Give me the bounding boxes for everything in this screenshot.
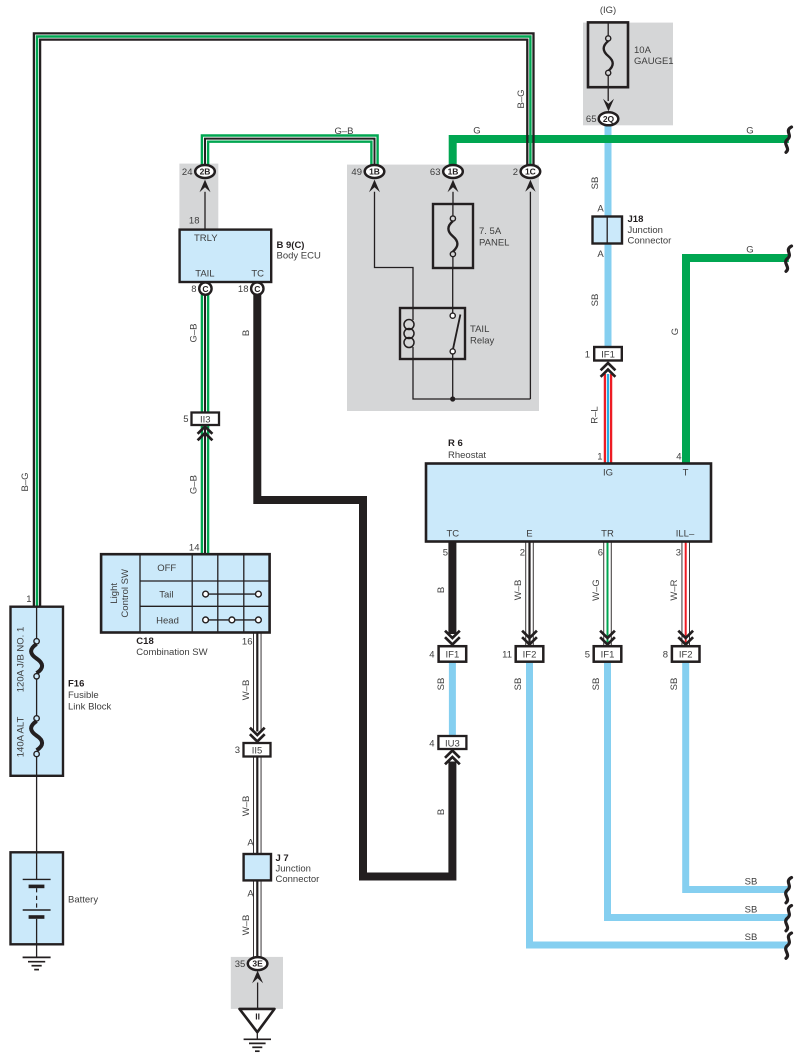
svg-text:F16: F16 — [68, 679, 84, 690]
svg-text:W–G: W–G — [591, 579, 602, 601]
svg-text:2: 2 — [513, 167, 518, 178]
svg-text:7. 5A: 7. 5A — [479, 226, 502, 237]
wire SB from IF2-11 to right edge — [530, 661, 789, 945]
svg-text:3: 3 — [676, 548, 681, 559]
wire B from body ECU TC down around to IU3 — [257, 295, 452, 877]
svg-text:Light: Light — [109, 583, 120, 604]
gauge fuse box 10A — [588, 22, 628, 87]
svg-text:IF1: IF1 — [446, 650, 460, 661]
svg-text:18: 18 — [238, 284, 249, 295]
fusible link 120A J/B NO.1 — [31, 607, 42, 716]
svg-text:3: 3 — [235, 745, 240, 756]
svg-text:SB: SB — [590, 294, 601, 307]
svg-text:SB: SB — [745, 877, 758, 888]
svg-text:J 7: J 7 — [276, 853, 289, 864]
oval connector 2B — [195, 165, 215, 178]
break squiggle on SB wire y917 — [786, 906, 792, 931]
svg-text:120A J/B NO. 1: 120A J/B NO. 1 — [16, 627, 27, 692]
svg-text:5: 5 — [443, 548, 448, 559]
ground symbol bottom — [244, 1039, 271, 1051]
break squiggle on SB wire y889 — [786, 878, 792, 903]
svg-text:1: 1 — [597, 452, 602, 463]
svg-text:Junction: Junction — [628, 225, 663, 236]
svg-text:Body ECU: Body ECU — [277, 251, 321, 262]
svg-text:A: A — [597, 204, 604, 215]
connector IF2 pin8 — [672, 646, 700, 662]
thin wire F16 to battery — [36, 775, 38, 853]
wire W-B from J7 to 3E — [254, 880, 261, 958]
chevron up into II3 — [198, 427, 213, 441]
svg-text:II5: II5 — [252, 745, 263, 756]
oval connector 2Q — [599, 112, 619, 125]
svg-text:SB: SB — [590, 177, 601, 190]
svg-text:IG: IG — [603, 468, 613, 479]
svg-text:SB: SB — [513, 678, 524, 691]
tail relay box — [400, 308, 465, 359]
pin circle C 8 — [199, 282, 211, 294]
svg-text:R–L: R–L — [590, 406, 601, 423]
svg-text:18: 18 — [189, 216, 200, 227]
thin wire 1B49 to relay coil — [375, 192, 414, 320]
svg-text:4: 4 — [429, 650, 434, 661]
oval connector 3E — [248, 957, 268, 970]
gray panel: IG gauge fuse block — [583, 23, 673, 126]
svg-text:4: 4 — [676, 452, 681, 463]
svg-text:5: 5 — [183, 414, 188, 425]
rheostat R6 — [426, 464, 711, 542]
svg-text:SB: SB — [669, 678, 680, 691]
svg-text:GAUGE1: GAUGE1 — [634, 56, 674, 67]
connector IF1 pin4 — [439, 646, 467, 662]
connector IF1 pin5 — [594, 646, 622, 662]
svg-text:Connector: Connector — [276, 874, 320, 885]
connector II3 — [192, 413, 220, 426]
svg-text:G–B: G–B — [334, 126, 353, 137]
svg-text:Control SW: Control SW — [120, 569, 131, 618]
thin wire 1C down right side — [529, 192, 531, 399]
chevron down into IF2 pin8 — [678, 631, 693, 645]
wire W-B from II5 to J7 — [254, 757, 261, 855]
arrow up into 3E — [252, 971, 263, 984]
svg-text:TRLY: TRLY — [194, 233, 218, 244]
svg-text:A: A — [247, 889, 254, 900]
svg-text:W–B: W–B — [241, 915, 252, 936]
gray panel: ground point 3E — [231, 957, 283, 1009]
svg-text:Link Block: Link Block — [68, 702, 112, 713]
svg-text:B–G: B–G — [20, 472, 31, 491]
svg-text:T: T — [683, 468, 689, 479]
svg-text:TAIL: TAIL — [470, 324, 489, 335]
svg-text:PANEL: PANEL — [479, 238, 509, 249]
svg-text:35: 35 — [235, 959, 246, 970]
svg-text:24: 24 — [182, 167, 193, 178]
svg-text:16: 16 — [242, 637, 253, 648]
svg-text:2Q: 2Q — [603, 114, 615, 124]
chevron down into II5 — [250, 728, 265, 742]
chevron down into IF1 pin5 — [600, 631, 615, 645]
thin wire gauge fuse to 2Q arrow — [607, 87, 609, 101]
wire G second to rheostat T — [686, 258, 789, 465]
thin wire panel fuse to relay switch — [452, 267, 454, 314]
svg-text:Connector: Connector — [628, 236, 672, 247]
svg-text:W–B: W–B — [513, 580, 524, 601]
svg-text:6: 6 — [598, 548, 603, 559]
gray panel: body ECU pin 2B — [179, 164, 218, 230]
junction dot on bottom rail — [450, 396, 455, 401]
arrow up into 1B49 — [369, 180, 380, 193]
thin wire relay switch to bottom rail — [452, 354, 454, 399]
svg-text:(IG): (IG) — [600, 5, 616, 16]
svg-text:IU3: IU3 — [445, 739, 460, 750]
svg-text:Junction: Junction — [276, 864, 311, 875]
svg-text:IF2: IF2 — [679, 650, 693, 661]
svg-text:C18: C18 — [136, 636, 153, 647]
wire G-B from 2B over to 1B49 — [202, 136, 378, 166]
svg-text:Tail: Tail — [159, 589, 173, 600]
svg-text:G: G — [670, 328, 681, 335]
wire G main horizontal to 1B63 — [453, 139, 789, 165]
wire R-L from IF1 down to rheostat IG — [605, 374, 611, 465]
thin wire 2B arrow to body ECU — [204, 192, 206, 230]
svg-text:TC: TC — [446, 528, 459, 539]
break squiggle on G wire top — [786, 127, 792, 152]
wire SB from IF1 to IU3 — [449, 661, 456, 737]
svg-text:SB: SB — [436, 678, 447, 691]
thin wire 1B63 to panel fuse — [452, 192, 454, 205]
switch contacts head row — [203, 617, 262, 623]
connector IU3 — [438, 736, 466, 749]
svg-text:10A: 10A — [634, 45, 652, 56]
chevron up into IF1 pin1 — [601, 363, 616, 377]
svg-text:W–B: W–B — [241, 680, 252, 701]
svg-text:IF1: IF1 — [601, 350, 615, 361]
pin circle C 18 — [251, 282, 263, 294]
svg-text:63: 63 — [430, 167, 441, 178]
svg-text:1B: 1B — [369, 167, 380, 177]
svg-text:G–B: G–B — [189, 475, 200, 494]
svg-text:II: II — [255, 1012, 260, 1022]
fusible link 140A ALT — [31, 716, 42, 775]
svg-text:B 9(C): B 9(C) — [277, 240, 305, 251]
svg-text:Head: Head — [156, 615, 179, 626]
wire SB from IF1-5 to right edge — [608, 661, 789, 918]
relay coil — [404, 320, 414, 348]
oval connector 1B 63 — [443, 165, 463, 178]
svg-text:5: 5 — [585, 650, 590, 661]
svg-text:2: 2 — [520, 548, 525, 559]
wire W-B from C18 pin16 to II5 — [254, 633, 261, 732]
chevron down into IF1 pin4 — [445, 631, 460, 645]
ground triangle II — [240, 1009, 275, 1032]
thin wire relay coil bottom to bottom rail — [413, 347, 530, 399]
svg-text:Battery: Battery — [68, 895, 98, 906]
relay switch — [450, 313, 460, 354]
chevron down into IF2 pin11 — [522, 631, 537, 645]
svg-text:1: 1 — [585, 350, 590, 361]
svg-text:SB: SB — [745, 905, 758, 916]
ground below battery — [23, 957, 51, 969]
arrow down into 2Q — [603, 99, 614, 112]
svg-text:R 6: R 6 — [448, 438, 463, 449]
break squiggle on SB wire y945 — [786, 933, 792, 958]
connector IF1 pin1 — [594, 347, 622, 361]
svg-text:E: E — [526, 528, 532, 539]
svg-text:TAIL: TAIL — [195, 269, 214, 280]
svg-text:G: G — [746, 245, 753, 256]
battery — [11, 852, 64, 944]
chevron up into IU3 — [445, 751, 460, 765]
connector IF2 pin11 — [516, 646, 544, 662]
svg-text:A: A — [247, 838, 254, 849]
svg-text:J18: J18 — [628, 214, 644, 225]
wire B from rheostat TC down to IF1 — [448, 542, 456, 635]
wire W-B from rheostat E down to IF2 — [526, 542, 534, 646]
svg-text:TC: TC — [251, 269, 264, 280]
wire G-B from pin 8C down to II3 — [202, 295, 208, 413]
svg-text:W–R: W–R — [669, 579, 680, 600]
junction connector J18 — [593, 217, 623, 244]
svg-text:Rheostat: Rheostat — [448, 450, 486, 461]
junction connector J7 — [244, 854, 271, 880]
svg-text:A: A — [597, 249, 604, 260]
oval connector 1B 49 — [365, 165, 385, 178]
svg-text:11: 11 — [502, 650, 512, 661]
svg-text:SB: SB — [591, 678, 602, 691]
panel fuse box 7.5A — [433, 204, 473, 268]
svg-text:8: 8 — [191, 284, 196, 295]
svg-text:1: 1 — [26, 594, 31, 605]
svg-text:2B: 2B — [200, 167, 211, 177]
combination switch C18 — [101, 554, 270, 632]
oval connector 1C — [521, 165, 541, 178]
svg-text:Combination SW: Combination SW — [136, 647, 207, 658]
svg-text:IF1: IF1 — [601, 650, 615, 661]
svg-text:ILL–: ILL– — [676, 528, 695, 539]
svg-text:1C: 1C — [525, 167, 536, 177]
svg-text:14: 14 — [189, 543, 200, 554]
svg-text:140A ALT: 140A ALT — [16, 717, 27, 758]
svg-text:8: 8 — [663, 650, 668, 661]
svg-text:G–B: G–B — [189, 323, 200, 342]
svg-text:SB: SB — [745, 932, 758, 943]
svg-text:G: G — [473, 126, 480, 137]
thin wire triangle to ground — [256, 1031, 258, 1039]
svg-text:G: G — [746, 126, 753, 137]
arrow up into 1C — [525, 180, 535, 192]
svg-text:C: C — [254, 284, 260, 294]
svg-text:1B: 1B — [448, 167, 459, 177]
wire B-G from F16 up over to 1C — [34, 33, 534, 606]
break squiggle on G wire second — [786, 246, 792, 271]
wire SB from 2Q to IF1 (node x608) — [605, 124, 612, 348]
arrow up into 1B63 — [448, 180, 459, 193]
thin wire 3E arrow to triangle — [257, 983, 259, 1010]
fusible link block F16 — [11, 607, 64, 776]
svg-text:65: 65 — [586, 114, 597, 125]
svg-text:4: 4 — [429, 739, 434, 750]
svg-text:49: 49 — [351, 167, 362, 178]
svg-text:OFF: OFF — [157, 563, 176, 574]
arrow up into 2B — [200, 180, 211, 193]
svg-text:B: B — [436, 809, 447, 815]
svg-text:B–G: B–G — [516, 89, 527, 108]
switch contacts tail row — [203, 591, 262, 597]
svg-text:TR: TR — [601, 528, 614, 539]
svg-text:3E: 3E — [252, 959, 263, 969]
svg-text:IF2: IF2 — [523, 650, 537, 661]
thin wire battery to ground — [36, 944, 38, 958]
svg-text:II3: II3 — [200, 415, 211, 426]
svg-text:Fusible: Fusible — [68, 690, 99, 701]
svg-text:B: B — [241, 330, 252, 336]
gray panel: tail relay block — [347, 165, 539, 411]
wire G-B from II3 down to C18 pin 14 — [202, 426, 208, 555]
body ECU B9(C) — [180, 230, 272, 282]
svg-text:W–B: W–B — [241, 796, 252, 817]
svg-text:Relay: Relay — [470, 336, 495, 347]
wire W-G from rheostat TR down to IF1 — [604, 542, 612, 646]
svg-text:C: C — [202, 284, 208, 294]
connector II5 — [244, 743, 271, 757]
wire SB from IF2-8 to right edge — [686, 661, 788, 890]
wire W-R from rheostat ILL- down to IF2 — [682, 542, 690, 646]
svg-text:B: B — [436, 587, 447, 593]
